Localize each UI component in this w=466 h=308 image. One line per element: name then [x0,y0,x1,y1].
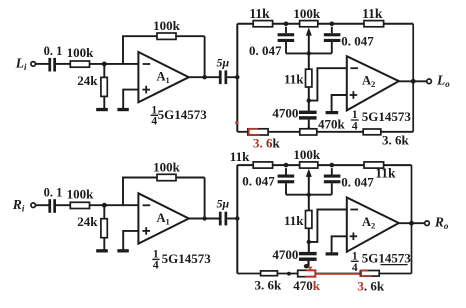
svg-text:5G14573: 5G14573 [362,251,412,266]
svg-text:1: 1 [151,104,157,116]
svg-text:0. 1: 0. 1 [44,186,63,200]
svg-text:5G14573: 5G14573 [162,251,212,266]
svg-text:100k: 100k [153,18,181,33]
svg-text:11k: 11k [249,6,270,21]
svg-text:3. 6k: 3. 6k [253,136,281,151]
svg-text:0. 1: 0. 1 [44,44,63,58]
svg-text:3. 6k: 3. 6k [255,278,283,293]
svg-text:470k: 470k [293,278,321,293]
svg-text:5μ: 5μ [217,197,230,211]
svg-text:11k: 11k [284,213,304,228]
svg-text:11k: 11k [375,166,396,181]
svg-text:100k: 100k [293,6,321,21]
svg-text:11k: 11k [362,6,383,21]
svg-text:5μ: 5μ [217,55,230,69]
svg-text:5G14573: 5G14573 [362,109,412,124]
svg-text:100k: 100k [153,160,181,175]
svg-text:24k: 24k [77,73,98,88]
svg-text:4700: 4700 [272,247,298,262]
svg-text:4: 4 [153,260,159,272]
svg-text:11k: 11k [284,72,304,87]
svg-text:3. 6k: 3. 6k [382,132,410,147]
svg-text:24k: 24k [77,214,98,229]
svg-text:0. 047: 0. 047 [242,174,275,189]
svg-text:100k: 100k [67,187,95,202]
svg-text:4: 4 [151,116,157,128]
svg-text:470k: 470k [318,117,346,132]
svg-text:4700: 4700 [272,106,298,121]
svg-text:3. 6k: 3. 6k [357,279,385,294]
svg-text:5G14573: 5G14573 [158,107,208,122]
svg-text:4: 4 [352,262,358,274]
svg-text:11k: 11k [230,149,250,164]
svg-text:4: 4 [352,121,358,133]
svg-text:0. 047: 0. 047 [341,33,374,48]
svg-text:100k: 100k [67,45,95,60]
svg-text:0. 047: 0. 047 [341,175,374,190]
svg-text:100k: 100k [293,147,321,162]
svg-text:0. 047: 0. 047 [249,43,282,58]
